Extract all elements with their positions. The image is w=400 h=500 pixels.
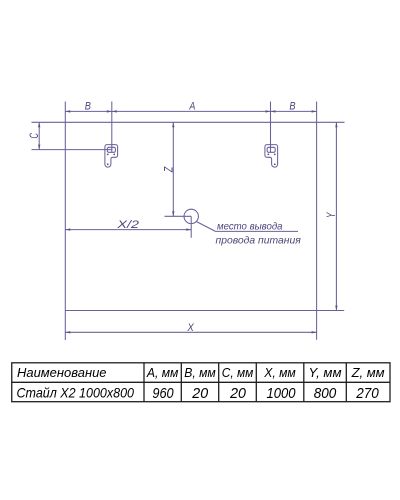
svg-text:20: 20 <box>191 385 208 402</box>
svg-text:270: 270 <box>355 385 379 402</box>
svg-text:X/2: X/2 <box>116 219 139 231</box>
svg-text:Наименование: Наименование <box>17 365 107 380</box>
svg-text:Стайл Х2 1000х800: Стайл Х2 1000х800 <box>17 385 135 401</box>
svg-text:С, мм: С, мм <box>222 365 254 380</box>
svg-text:Y, мм: Y, мм <box>309 365 342 380</box>
svg-text:провода питания: провода питания <box>216 235 302 247</box>
svg-text:20: 20 <box>229 385 246 402</box>
svg-text:В, мм: В, мм <box>184 365 216 380</box>
svg-text:C: C <box>29 132 41 138</box>
svg-text:X: X <box>187 322 195 334</box>
svg-text:Z, мм: Z, мм <box>351 365 385 380</box>
svg-text:B: B <box>85 101 91 113</box>
svg-text:A: A <box>189 101 196 113</box>
svg-text:B: B <box>289 101 295 113</box>
svg-text:1000: 1000 <box>267 385 297 402</box>
svg-text:А, мм: А, мм <box>146 365 179 380</box>
svg-text:Х, мм: Х, мм <box>263 365 296 380</box>
svg-text:Y: Y <box>326 212 338 218</box>
svg-text:800: 800 <box>314 385 337 402</box>
svg-text:960: 960 <box>152 385 174 402</box>
svg-text:Z: Z <box>163 166 175 173</box>
svg-text:место вывода: место вывода <box>217 221 283 233</box>
